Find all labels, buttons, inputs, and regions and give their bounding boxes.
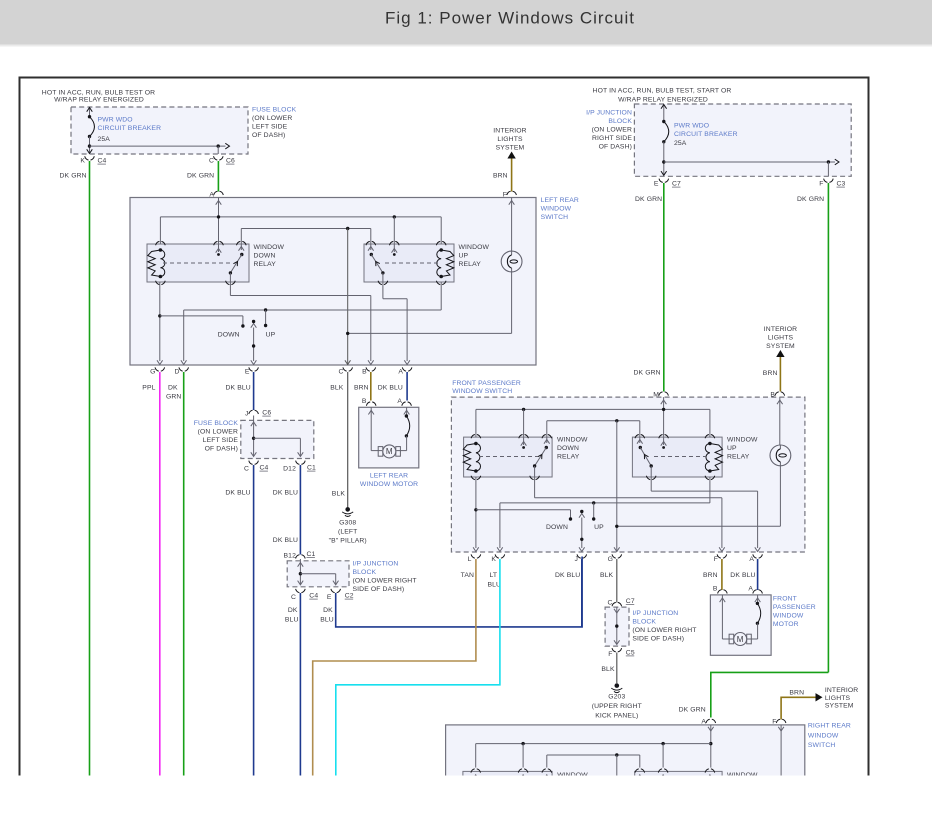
svg-text:DK BLU: DK BLU [273,490,298,497]
svg-text:DK GRN: DK GRN [60,173,87,180]
svg-text:(ON LOWER: (ON LOWER [198,429,238,436]
svg-text:MOTOR: MOTOR [773,621,799,628]
svg-text:PPL: PPL [142,385,155,392]
svg-text:J: J [574,556,578,563]
svg-text:DOWN: DOWN [557,445,579,452]
svg-text:FRONT: FRONT [773,596,797,603]
svg-text:(ON LOWER RIGHT: (ON LOWER RIGHT [632,627,696,634]
svg-text:LEFT REAR: LEFT REAR [541,197,579,204]
svg-text:BLOCK: BLOCK [632,619,656,626]
svg-text:I/P JUNCTION: I/P JUNCTION [586,110,632,117]
svg-text:DK BLU: DK BLU [273,537,298,544]
svg-text:DK GRN: DK GRN [679,707,706,714]
svg-text:C1: C1 [307,465,316,472]
svg-text:RELAY: RELAY [727,453,750,460]
svg-text:C4: C4 [260,465,269,472]
svg-text:(LEFT: (LEFT [338,529,357,536]
svg-text:C7: C7 [626,598,635,605]
svg-text:SWITCH: SWITCH [808,742,836,749]
svg-text:W/RAP RELAY ENERGIZED: W/RAP RELAY ENERGIZED [54,97,144,104]
svg-text:C: C [607,600,612,607]
svg-text:WINDOW: WINDOW [727,436,758,443]
svg-text:C: C [338,369,343,376]
svg-text:A: A [398,369,403,376]
svg-text:E: E [245,369,250,376]
svg-text:(ON LOWER: (ON LOWER [592,127,632,134]
svg-text:RIGHT REAR: RIGHT REAR [808,723,851,730]
svg-text:G: G [150,369,155,376]
svg-text:BLK: BLK [601,666,615,673]
svg-text:E: E [654,181,659,188]
svg-text:C2: C2 [345,593,354,600]
svg-text:SIDE OF DASH): SIDE OF DASH) [353,586,405,593]
svg-text:C: C [291,594,296,601]
svg-text:A: A [749,556,754,563]
svg-text:SYSTEM: SYSTEM [496,145,525,152]
svg-text:"B" PILLAR): "B" PILLAR) [329,538,367,545]
svg-text:INTERIOR: INTERIOR [825,687,858,694]
svg-text:LEFT REAR: LEFT REAR [370,473,408,480]
svg-text:RIGHT SIDE: RIGHT SIDE [592,135,632,142]
svg-text:25A: 25A [674,140,687,147]
svg-text:DK GRN: DK GRN [634,370,661,377]
svg-text:WINDOW: WINDOW [808,732,839,739]
svg-text:INTERIOR: INTERIOR [493,128,526,135]
svg-text:SYSTEM: SYSTEM [766,343,795,350]
svg-text:FUSE BLOCK: FUSE BLOCK [194,420,239,427]
svg-text:WINDOW SWITCH: WINDOW SWITCH [452,388,512,395]
svg-text:FUSE BLOCK: FUSE BLOCK [252,107,297,114]
svg-text:(ON LOWER RIGHT: (ON LOWER RIGHT [353,578,417,585]
svg-text:C: C [209,158,214,165]
svg-text:C4: C4 [309,593,318,600]
svg-text:I/P JUNCTION: I/P JUNCTION [632,610,678,617]
svg-text:D: D [174,369,179,376]
svg-text:DK: DK [168,385,178,392]
svg-text:SWITCH: SWITCH [541,214,569,221]
svg-text:G308: G308 [339,520,356,527]
svg-text:M: M [737,635,744,644]
svg-text:C7: C7 [672,181,681,188]
svg-text:LIGHTS: LIGHTS [768,335,794,342]
svg-text:BRN: BRN [763,370,778,377]
svg-text:UP: UP [594,524,604,531]
svg-text:BRN: BRN [703,572,718,579]
svg-text:C3: C3 [837,181,846,188]
svg-text:M: M [386,447,393,456]
svg-text:G: G [608,556,613,563]
svg-text:WINDOW: WINDOW [773,613,804,620]
svg-text:RELAY: RELAY [254,261,277,268]
svg-text:TAN: TAN [461,572,474,579]
svg-text:A: A [701,719,706,726]
svg-text:BRN: BRN [354,385,369,392]
svg-text:BLU: BLU [488,582,502,589]
svg-text:B: B [713,586,718,593]
svg-text:OF DASH): OF DASH) [252,132,285,139]
svg-text:W/RAP RELAY ENERGIZED: W/RAP RELAY ENERGIZED [618,97,708,104]
svg-text:DK BLU: DK BLU [226,385,251,392]
svg-text:G203: G203 [608,694,625,701]
svg-text:F: F [608,651,612,658]
svg-text:(ON LOWER: (ON LOWER [252,115,292,122]
svg-text:C1: C1 [307,551,316,558]
svg-text:DK BLU: DK BLU [378,385,403,392]
svg-text:F: F [772,719,776,726]
svg-text:LIGHTS: LIGHTS [497,136,523,143]
svg-text:RELAY: RELAY [557,453,580,460]
svg-text:DOWN: DOWN [218,332,240,339]
svg-text:WINDOW MOTOR: WINDOW MOTOR [360,481,418,488]
svg-text:BLU: BLU [320,617,334,624]
svg-text:WINDOW: WINDOW [557,436,588,443]
svg-text:DK GRN: DK GRN [187,173,214,180]
svg-text:C6: C6 [262,410,271,417]
svg-text:CIRCUIT BREAKER: CIRCUIT BREAKER [98,125,162,132]
svg-text:L: L [468,556,472,563]
svg-text:BRN: BRN [789,690,804,697]
svg-text:B: B [362,398,367,405]
svg-text:HOT IN ACC, RUN, BULB TEST, ST: HOT IN ACC, RUN, BULB TEST, START OR [593,88,732,95]
svg-text:F: F [714,556,718,563]
svg-text:LIGHTS: LIGHTS [825,695,851,702]
svg-text:LEFT SIDE: LEFT SIDE [203,437,239,444]
svg-text:K: K [491,556,496,563]
svg-text:M: M [653,391,659,398]
svg-text:BLK: BLK [600,572,614,579]
svg-text:SIDE OF DASH): SIDE OF DASH) [632,636,684,643]
svg-text:OF DASH): OF DASH) [205,446,238,453]
svg-text:A: A [397,398,402,405]
svg-text:C4: C4 [98,158,107,165]
svg-text:(UPPER RIGHT: (UPPER RIGHT [592,703,642,710]
svg-text:Fig 1: Power Windows Circuit: Fig 1: Power Windows Circuit [385,9,635,28]
svg-text:PWR WDO: PWR WDO [674,123,709,130]
svg-text:A: A [748,586,753,593]
svg-text:E: E [327,594,332,601]
svg-text:HOT IN ACC, RUN, BULB TEST OR: HOT IN ACC, RUN, BULB TEST OR [42,90,155,97]
svg-text:GRN: GRN [166,394,181,401]
svg-text:PASSENGER: PASSENGER [773,604,816,611]
svg-text:BLK: BLK [332,491,346,498]
svg-text:C: C [244,466,249,473]
svg-text:C5: C5 [626,649,635,656]
svg-text:OF DASH): OF DASH) [599,144,632,151]
svg-text:WINDOW: WINDOW [459,244,490,251]
svg-text:C6: C6 [226,158,235,165]
svg-text:BLOCK: BLOCK [608,118,632,125]
svg-text:DOWN: DOWN [254,253,276,260]
svg-text:DK BLU: DK BLU [225,490,250,497]
svg-text:SYSTEM: SYSTEM [825,703,854,710]
svg-text:J: J [245,411,249,418]
svg-text:FRONT PASSENGER: FRONT PASSENGER [452,380,521,387]
svg-text:UP: UP [266,332,276,339]
svg-text:UP: UP [459,253,469,260]
svg-text:PWR WDO: PWR WDO [98,117,133,124]
svg-text:RELAY: RELAY [459,261,482,268]
svg-text:B: B [770,391,775,398]
svg-text:DK GRN: DK GRN [635,196,662,203]
svg-text:25A: 25A [98,136,111,143]
svg-text:DK GRN: DK GRN [797,196,824,203]
svg-text:K: K [80,158,85,165]
svg-text:UP: UP [727,445,737,452]
svg-text:BLOCK: BLOCK [353,569,377,576]
svg-text:DK: DK [323,607,333,614]
svg-text:WINDOW: WINDOW [541,206,572,213]
svg-text:WINDOW: WINDOW [254,244,285,251]
svg-text:DOWN: DOWN [546,524,568,531]
svg-text:I/P JUNCTION: I/P JUNCTION [353,561,399,568]
svg-text:LT: LT [490,572,498,579]
svg-text:KICK PANEL): KICK PANEL) [595,713,638,720]
svg-text:B: B [362,369,367,376]
svg-text:CIRCUIT BREAKER: CIRCUIT BREAKER [674,131,738,138]
svg-text:LEFT SIDE: LEFT SIDE [252,124,288,131]
svg-text:BRN: BRN [493,173,508,180]
svg-text:INTERIOR: INTERIOR [764,326,797,333]
svg-text:F: F [819,181,823,188]
svg-text:BLU: BLU [285,617,299,624]
svg-text:DK: DK [288,607,298,614]
svg-text:F: F [503,192,507,199]
svg-text:DK BLU: DK BLU [730,572,755,579]
svg-text:BLK: BLK [330,385,344,392]
svg-text:B12: B12 [284,553,297,560]
svg-text:DK BLU: DK BLU [555,572,580,579]
svg-text:D12: D12 [283,466,296,473]
